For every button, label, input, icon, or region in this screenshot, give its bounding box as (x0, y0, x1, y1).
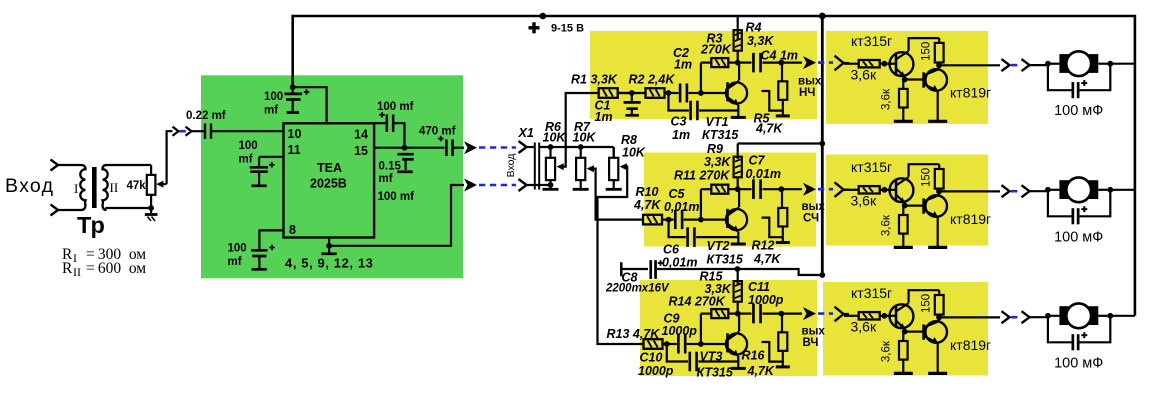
svg-text:вых: вых (802, 201, 826, 213)
svg-text:mf: mf (379, 173, 393, 185)
svg-text:Вход: Вход (5, 175, 54, 197)
svg-text:100 mf: 100 mf (378, 191, 415, 203)
svg-text:11: 11 (288, 143, 301, 157)
svg-text:C11: C11 (748, 280, 770, 294)
svg-text:НЧ: НЧ (799, 87, 815, 99)
svg-text:4, 5, 9, 12, 13: 4, 5, 9, 12, 13 (285, 256, 374, 271)
svg-text:15: 15 (354, 144, 368, 158)
svg-text:100: 100 (264, 91, 283, 103)
svg-text:R10: R10 (636, 185, 659, 199)
svg-text:C10: C10 (640, 351, 663, 365)
svg-text:9-15 В: 9-15 В (551, 23, 584, 35)
svg-text:X1: X1 (518, 126, 534, 140)
svg-text:I: I (74, 181, 78, 196)
svg-text:mf: mf (264, 105, 278, 117)
svg-text:1m: 1m (674, 58, 692, 72)
svg-text:8: 8 (289, 223, 296, 237)
svg-text:2200mx16V: 2200mx16V (605, 283, 670, 295)
svg-text:0,01m: 0,01m (746, 167, 781, 181)
svg-text:кт315г: кт315г (851, 33, 892, 49)
svg-text:0,01m: 0,01m (662, 256, 697, 270)
svg-text:100 мФ: 100 мФ (1054, 229, 1103, 245)
svg-text:Тр: Тр (77, 212, 105, 238)
svg-text:R4: R4 (746, 21, 762, 35)
svg-text:3,6к: 3,6к (851, 193, 877, 209)
svg-text:кт315г: кт315г (851, 285, 892, 301)
svg-text:3,6к: 3,6к (880, 88, 892, 110)
svg-text:VT2: VT2 (707, 239, 730, 253)
svg-text:R12: R12 (752, 239, 775, 253)
svg-text:кт819г: кт819г (950, 85, 991, 101)
svg-text:1000p: 1000p (662, 324, 698, 338)
svg-text:3,6к: 3,6к (880, 214, 892, 236)
svg-text:0.15: 0.15 (379, 161, 402, 173)
svg-text:R1 3,3K: R1 3,3K (571, 73, 618, 87)
svg-text:470 mf: 470 mf (419, 126, 456, 138)
svg-text:TEA: TEA (317, 161, 342, 175)
svg-text:270K: 270K (700, 43, 732, 57)
svg-text:10: 10 (288, 127, 302, 141)
svg-text:вых: вых (798, 76, 822, 88)
svg-text:1m: 1m (595, 110, 613, 124)
svg-text:кт315г: кт315г (851, 159, 892, 175)
svg-text:150: 150 (921, 294, 933, 313)
svg-text:3,6к: 3,6к (851, 319, 877, 335)
svg-text:4,7K: 4,7K (747, 364, 775, 378)
svg-text:R13 4,7K: R13 4,7K (607, 327, 661, 341)
svg-text:кт819г: кт819г (950, 337, 991, 353)
svg-text:КТ315: КТ315 (707, 253, 744, 267)
svg-text:R14 270K: R14 270K (669, 295, 726, 309)
svg-text:mf: mf (239, 154, 253, 166)
svg-text:КТ315: КТ315 (697, 366, 734, 380)
svg-text:C7: C7 (749, 154, 766, 168)
svg-text:II: II (110, 180, 119, 195)
svg-text:I: I (73, 251, 77, 265)
svg-text:3,3K: 3,3K (705, 282, 732, 296)
svg-text:47k: 47k (127, 180, 147, 192)
svg-text:C4 1m: C4 1m (761, 49, 799, 63)
svg-text:14: 14 (354, 128, 368, 142)
svg-text:100: 100 (228, 243, 247, 255)
svg-text:10K: 10K (543, 131, 567, 145)
svg-text:R2 2,4K: R2 2,4K (629, 73, 676, 87)
svg-text:10K: 10K (622, 146, 646, 160)
svg-text:3,6к: 3,6к (851, 67, 877, 83)
svg-text:C3: C3 (671, 115, 687, 129)
svg-text:= 600 ом: = 600 ом (86, 260, 146, 277)
svg-text:3,3K: 3,3K (747, 34, 774, 48)
svg-text:VT1: VT1 (706, 115, 729, 129)
svg-text:C6: C6 (663, 243, 680, 257)
svg-text:2025В: 2025В (310, 177, 347, 191)
svg-text:R9: R9 (707, 142, 723, 156)
svg-text:150: 150 (921, 42, 933, 61)
svg-text:II: II (73, 265, 81, 279)
svg-text:0,01m: 0,01m (664, 200, 699, 214)
svg-text:10K: 10K (573, 131, 597, 145)
svg-text:C5: C5 (669, 187, 686, 201)
svg-text:Вход: Вход (505, 154, 517, 178)
svg-text:100: 100 (239, 140, 258, 152)
svg-text:1000p: 1000p (748, 293, 784, 307)
svg-text:VT3: VT3 (700, 350, 723, 364)
svg-text:ВЧ: ВЧ (803, 337, 819, 349)
svg-text:100 мФ: 100 мФ (1054, 355, 1103, 371)
svg-text:4,7K: 4,7K (755, 122, 783, 136)
svg-text:3,3K: 3,3K (704, 155, 731, 169)
svg-text:КТ315: КТ315 (702, 128, 739, 142)
svg-text:вых: вых (802, 326, 826, 338)
svg-text:R11 270K: R11 270K (674, 169, 730, 183)
svg-text:3,6к: 3,6к (880, 340, 892, 362)
svg-text:R: R (62, 260, 73, 277)
svg-text:R16: R16 (742, 349, 766, 363)
svg-text:СЧ: СЧ (803, 213, 819, 225)
svg-text:4,7K: 4,7K (633, 198, 661, 212)
svg-text:1000p: 1000p (638, 364, 674, 378)
svg-text:0.22 mf: 0.22 mf (186, 110, 226, 122)
svg-text:100 mf: 100 mf (377, 101, 414, 113)
svg-text:mf: mf (228, 256, 242, 268)
svg-text:150: 150 (921, 168, 933, 187)
svg-text:кт819г: кт819г (950, 211, 991, 227)
svg-text:4,7K: 4,7K (753, 252, 781, 266)
svg-text:1m: 1m (672, 128, 690, 142)
svg-text:100 мФ: 100 мФ (1054, 103, 1103, 119)
